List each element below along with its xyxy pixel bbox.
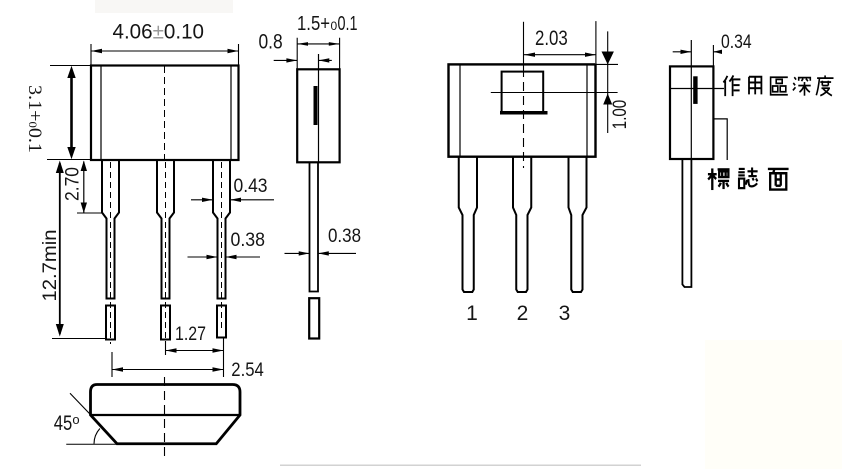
svg-text:1: 1 [466, 302, 478, 325]
svg-text:0.43: 0.43 [234, 176, 268, 197]
svg-text:1.27: 1.27 [175, 324, 206, 345]
svg-text:0: 0 [331, 19, 338, 33]
svg-text:0.34: 0.34 [721, 32, 752, 53]
svg-text:0.8: 0.8 [259, 31, 283, 54]
svg-text:1.00: 1.00 [610, 100, 631, 129]
svg-text:o: o [72, 412, 79, 427]
svg-text:3: 3 [559, 302, 571, 325]
svg-text:45: 45 [54, 412, 72, 435]
svg-text:2.54: 2.54 [231, 360, 264, 381]
svg-text:2.03: 2.03 [535, 27, 568, 50]
svg-text:1.5+: 1.5+ [297, 13, 330, 35]
svg-text:2: 2 [517, 302, 529, 325]
svg-text:12.7min: 12.7min [40, 230, 61, 302]
svg-text:2.70: 2.70 [63, 167, 84, 201]
svg-text:0.38: 0.38 [231, 230, 266, 251]
svg-text:3.1+00.1: 3.1+00.1 [24, 85, 45, 153]
svg-text:0.1: 0.1 [338, 13, 358, 35]
svg-text:0.38: 0.38 [328, 226, 361, 247]
svg-text:4.06±0.10: 4.06±0.10 [113, 21, 205, 44]
